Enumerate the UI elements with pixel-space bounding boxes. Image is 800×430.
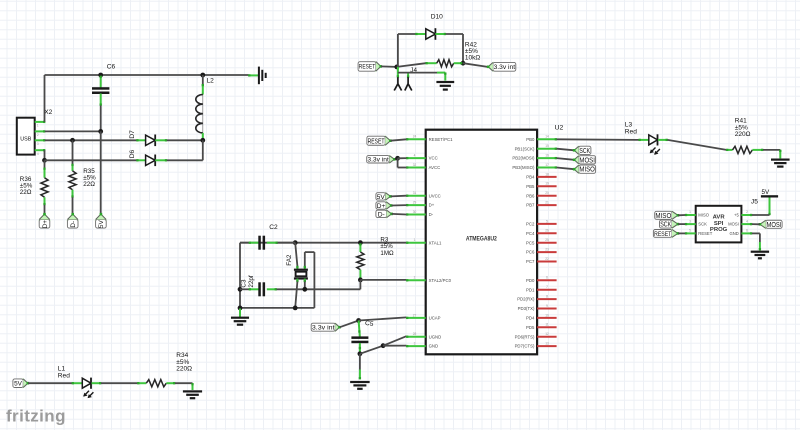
ground GND6 (J5) — [751, 251, 769, 260]
svg-text:GND: GND — [429, 344, 439, 349]
svg-text:2: 2 — [414, 276, 416, 280]
svg-text:7: 7 — [546, 285, 548, 289]
svg-text:19: 19 — [545, 182, 549, 186]
wire LED L3 to R41 — [668, 140, 727, 150]
net tag MOSI (IC) — [573, 155, 596, 165]
wire MISO tag to J5 — [678, 214, 685, 216]
svg-text:Red: Red — [625, 128, 637, 135]
label R36 — [20, 176, 33, 196]
svg-text:PROG: PROG — [710, 227, 728, 233]
LED L3 — [638, 134, 667, 155]
svg-text:5V: 5V — [761, 189, 770, 196]
svg-text:14: 14 — [545, 135, 549, 139]
svg-text:PB0: PB0 — [526, 137, 535, 142]
svg-text:C2: C2 — [269, 224, 278, 231]
svg-text:3: 3 — [689, 219, 691, 223]
svg-text:1: 1 — [37, 124, 39, 128]
svg-text:UCAP: UCAP — [429, 316, 441, 321]
wire XTAL2 net — [302, 280, 406, 292]
svg-text:4: 4 — [414, 154, 416, 158]
svg-text:PC5: PC5 — [526, 240, 535, 245]
net tag MISO (IC) — [573, 164, 596, 174]
svg-text:UGND: UGND — [429, 334, 442, 339]
capacitor C3 — [240, 282, 305, 296]
label R3 — [380, 237, 394, 257]
svg-text:fritzing: fritzing — [6, 407, 66, 426]
svg-text:SCK: SCK — [698, 222, 707, 227]
wire 5V net down — [100, 131, 102, 213]
svg-text:5: 5 — [546, 219, 548, 223]
IC U2 right pins (unconnected red) — [515, 172, 557, 348]
wire PB3 to MISO tag — [557, 168, 575, 170]
svg-text:L2: L2 — [207, 77, 215, 84]
svg-text:26: 26 — [545, 229, 549, 233]
label R34 — [176, 352, 192, 372]
svg-text:RESET: RESET — [698, 231, 712, 236]
capacitor C6 — [92, 76, 109, 106]
label C6 — [107, 64, 116, 71]
svg-text:31: 31 — [413, 191, 417, 195]
label R42 — [465, 41, 480, 61]
wire X2 pin1 up — [44, 75, 46, 122]
svg-text:U2: U2 — [555, 125, 564, 132]
label L1 Red — [58, 366, 70, 380]
svg-text:2: 2 — [37, 133, 39, 137]
net tag D- (IC) — [376, 209, 393, 218]
svg-text:XTAL1: XTAL1 — [429, 240, 442, 245]
net tag MISO (J5) — [655, 210, 679, 220]
svg-text:C6: C6 — [107, 64, 116, 71]
net tag 3.3v int (UCAP) — [311, 322, 341, 332]
svg-text:RESET: RESET — [359, 64, 375, 71]
svg-text:D7: D7 — [129, 130, 136, 139]
crystal FA2 — [294, 243, 308, 308]
svg-text:PB6: PB6 — [526, 193, 535, 198]
wire crystal loop — [305, 252, 315, 308]
svg-text:PD2(RX): PD2(RX) — [517, 297, 535, 302]
svg-text:MOSI: MOSI — [767, 222, 782, 229]
svg-text:3: 3 — [414, 342, 416, 346]
svg-text:5V: 5V — [377, 194, 386, 201]
net tag D+ (IC) — [376, 201, 393, 210]
connector J5 AVR SPI PROG body — [696, 206, 742, 243]
svg-text:11: 11 — [545, 323, 549, 327]
wire 3.3vint to VCC/AVCC — [395, 156, 407, 168]
wire D- tag to pin — [392, 213, 407, 216]
svg-text:SPI: SPI — [714, 221, 724, 227]
svg-text:3.3v int: 3.3v int — [494, 64, 516, 71]
wire C5 node to UCAP — [359, 317, 407, 320]
svg-text:PB5: PB5 — [526, 184, 535, 189]
wire J5 GND to ground — [752, 233, 761, 250]
svg-text:MOSI: MOSI — [728, 222, 739, 227]
label R35 — [83, 168, 96, 188]
svg-text:MISO: MISO — [698, 213, 709, 218]
diode D6 — [136, 155, 167, 167]
svg-text:5V: 5V — [14, 381, 23, 388]
svg-text:SCK: SCK — [660, 222, 671, 229]
net tag RESET (J5) — [653, 229, 679, 239]
svg-text:22Ω: 22Ω — [83, 181, 95, 188]
wire LED L1 to R34 — [101, 382, 138, 384]
svg-text:USB: USB — [20, 136, 31, 142]
svg-text:23: 23 — [545, 248, 549, 252]
IC U2 right pins (connected) — [512, 135, 557, 170]
resistor R36 — [41, 160, 48, 213]
svg-text:13: 13 — [545, 342, 549, 346]
wire pin4 to D6 — [45, 159, 137, 161]
label D7 — [129, 130, 136, 139]
svg-text:10kΩ: 10kΩ — [465, 55, 480, 62]
wire R42 to 3.3v int tag — [463, 63, 489, 67]
svg-text:22Ω: 22Ω — [20, 189, 32, 196]
svg-text:10: 10 — [545, 313, 549, 317]
wire R41 to ground — [763, 150, 781, 159]
svg-text:D+: D+ — [429, 203, 435, 208]
label FA2 — [286, 254, 293, 266]
wire RESET tag to J5 — [678, 232, 685, 234]
svg-text:15: 15 — [545, 144, 549, 148]
svg-text:6: 6 — [546, 276, 548, 280]
svg-text:8: 8 — [546, 295, 548, 299]
svg-text:D10: D10 — [431, 14, 443, 21]
label C5 — [364, 320, 374, 328]
wire left vertical (C2/C3/gnd) — [238, 243, 243, 308]
svg-text:MISO: MISO — [579, 167, 595, 174]
ground GND4 (under C5) — [350, 381, 370, 390]
ground GND5 (R41) — [771, 159, 790, 168]
svg-text:PB4: PB4 — [526, 175, 535, 180]
svg-text:PC7: PC7 — [526, 259, 535, 264]
net tag SCK (J5) — [660, 219, 680, 229]
svg-text:UVCC: UVCC — [429, 193, 441, 198]
net tag 3.3v int (VCC) — [367, 155, 396, 164]
net tag 5V (L1) — [13, 378, 29, 389]
svg-text:D+: D+ — [42, 220, 49, 229]
svg-text:MISO: MISO — [655, 213, 671, 220]
svg-text:1: 1 — [689, 210, 691, 214]
svg-text:GND: GND — [729, 231, 738, 236]
label J4 — [410, 67, 417, 74]
svg-text:PD7(CTS): PD7(CTS) — [515, 344, 535, 349]
svg-text:220Ω: 220Ω — [176, 365, 192, 372]
wire tag to C5 node — [340, 318, 361, 327]
svg-text:PD1: PD1 — [526, 287, 535, 292]
LED L1 — [72, 378, 102, 399]
svg-text:MOSI: MOSI — [579, 157, 595, 164]
svg-text:SCK: SCK — [579, 148, 590, 155]
svg-text:L1: L1 — [58, 366, 66, 373]
wire D6 up to L2 node — [167, 140, 203, 160]
net tag MOSI (J5 right) — [759, 219, 783, 229]
svg-text:28: 28 — [413, 332, 417, 336]
label X2 — [44, 109, 52, 116]
resistor R42 — [425, 60, 462, 67]
J5 right pins — [728, 210, 752, 236]
svg-text:1: 1 — [414, 238, 416, 242]
svg-text:C3: C3 — [241, 279, 248, 288]
wire C5 to ground — [359, 354, 361, 380]
resistor R34 — [137, 380, 175, 387]
wire XTAL1 net — [240, 240, 406, 245]
svg-text:21: 21 — [545, 201, 549, 205]
fritzing watermark — [6, 407, 66, 426]
svg-text:PB7: PB7 — [526, 203, 535, 208]
label D10 — [431, 14, 443, 21]
label C2 — [269, 224, 278, 231]
wire J4 to ground — [398, 72, 447, 80]
svg-text:X2: X2 — [44, 109, 52, 116]
svg-text:27: 27 — [413, 313, 417, 317]
svg-text:D6: D6 — [129, 150, 136, 159]
wire PB0 to LED L3 — [557, 138, 639, 141]
X2 pin stubs — [35, 121, 46, 152]
diode D7 — [136, 135, 167, 147]
resistor R3 — [357, 243, 364, 282]
svg-text:RESET: RESET — [654, 231, 671, 238]
svg-text:L3: L3 — [625, 121, 633, 128]
net tag RESET (IC) — [367, 135, 392, 146]
diode D10 — [415, 28, 446, 40]
wire RESET to node — [381, 65, 399, 70]
label C3 22pf — [241, 275, 255, 288]
wire node to R42 left — [397, 63, 426, 67]
wire RESET tag to pin — [391, 139, 407, 140]
svg-text:18: 18 — [545, 172, 549, 176]
svg-text:PB1(SCK): PB1(SCK) — [515, 146, 535, 151]
svg-text:22pf: 22pf — [248, 275, 255, 288]
wire D+ tag to pin — [391, 204, 406, 206]
svg-text:PD6(RTS): PD6(RTS) — [515, 334, 535, 339]
connector J4 pin1 — [394, 67, 401, 91]
ground GND3 (crystal) — [231, 309, 249, 326]
J5 title text — [710, 214, 728, 233]
svg-text:AVCC: AVCC — [429, 165, 441, 170]
capacitor C5 — [351, 321, 368, 357]
wire X2 pin4 corner — [42, 150, 47, 163]
svg-text:AVR: AVR — [713, 214, 726, 220]
svg-text:3: 3 — [37, 142, 39, 146]
label D6 — [129, 150, 136, 159]
label U2 — [555, 125, 564, 132]
svg-text:RESET/PC1: RESET/PC1 — [429, 137, 453, 142]
svg-text:12: 12 — [545, 332, 549, 336]
wire ground bus (crystal) — [238, 306, 315, 311]
wire +5 to 5V symbol — [752, 214, 770, 216]
net tag SCK (IC) — [573, 145, 591, 155]
svg-text:D+: D+ — [377, 203, 386, 210]
wire D7 to L2 node — [167, 138, 205, 143]
svg-text:PD5: PD5 — [526, 325, 535, 330]
svg-text:24: 24 — [413, 135, 417, 139]
svg-text:9: 9 — [546, 304, 548, 308]
net tag RESET (top) — [358, 61, 382, 73]
wire top bus — [45, 73, 249, 78]
net tag 5V (UVCC) — [376, 192, 392, 201]
svg-text:22: 22 — [545, 257, 549, 261]
svg-text:4: 4 — [37, 152, 39, 156]
svg-text:PD0: PD0 — [526, 278, 535, 283]
resistor R41 — [726, 146, 763, 153]
label R41 — [735, 118, 751, 138]
wire node up to D10 — [398, 34, 416, 67]
svg-text:Red: Red — [58, 373, 70, 380]
IC U2 body — [426, 130, 537, 355]
svg-text:25: 25 — [545, 238, 549, 242]
connector J4 pin2 — [405, 73, 412, 91]
wire X2 pin2 to C6 node — [45, 106, 103, 134]
IC name ATMEGA8U2 — [466, 235, 497, 242]
svg-text:1MΩ: 1MΩ — [380, 250, 394, 257]
svg-text:5V: 5V — [98, 220, 105, 229]
net tag D- (bottom) — [66, 213, 79, 228]
capacitor C2 — [240, 236, 295, 250]
ground GND2 (under J4) — [436, 81, 454, 91]
svg-text:FA2: FA2 — [286, 254, 293, 266]
svg-text:PB2(MOSI): PB2(MOSI) — [512, 156, 535, 161]
resistor R35 — [69, 140, 76, 213]
wire SCK tag to J5 — [678, 223, 685, 225]
svg-text:ATMEGA8U2: ATMEGA8U2 — [466, 235, 497, 242]
net tag 5V (bottom of USB) — [95, 213, 108, 228]
svg-text:3.3v int: 3.3v int — [312, 325, 335, 332]
inductor L2 — [196, 75, 204, 141]
X2 pin numbers — [37, 124, 39, 156]
svg-text:6: 6 — [746, 229, 748, 233]
wire R34 to ground — [175, 383, 194, 390]
svg-text:16: 16 — [545, 154, 549, 158]
label J5 — [751, 199, 758, 206]
connector X2 USB — [17, 118, 35, 155]
svg-text:D-: D- — [378, 211, 385, 218]
svg-text:RESET: RESET — [368, 136, 385, 145]
svg-text:PD4: PD4 — [526, 316, 535, 321]
svg-text:220Ω: 220Ω — [735, 131, 751, 138]
net tag D+ (bottom) — [38, 213, 51, 229]
svg-text:PB3(MISO): PB3(MISO) — [512, 165, 535, 170]
svg-text:D-: D- — [429, 212, 434, 217]
svg-text:C5: C5 — [364, 320, 374, 328]
svg-text:PD3(TX): PD3(TX) — [518, 306, 535, 311]
label L2 — [207, 77, 215, 84]
svg-text:D-: D- — [70, 221, 77, 228]
svg-text:32: 32 — [413, 163, 417, 167]
J5 left pins — [685, 210, 713, 236]
svg-text:J5: J5 — [751, 199, 758, 206]
svg-text:PC4: PC4 — [526, 231, 535, 236]
wire PB2 to MOSI tag — [557, 158, 575, 160]
svg-text:5: 5 — [689, 229, 691, 233]
svg-text:29: 29 — [413, 201, 417, 205]
power symbol 5V (J5) — [761, 189, 778, 215]
net tag 3.3v int (top) — [487, 61, 516, 72]
svg-text:VCC: VCC — [429, 156, 438, 161]
svg-text:4: 4 — [746, 219, 748, 223]
IC U2 left pins — [406, 135, 453, 349]
wire PB1 to SCK tag — [557, 149, 575, 151]
svg-text:3.3v int: 3.3v int — [367, 157, 389, 164]
wire D10 to R42 right node — [446, 34, 466, 66]
wire 5V tag to LED L1 — [28, 382, 72, 384]
label L3 Red — [625, 121, 637, 135]
wire X2 pin3 to D7 — [45, 138, 137, 143]
svg-text:PC6: PC6 — [526, 250, 535, 255]
ground GND1 (rotated, top right) — [248, 67, 267, 85]
wire 5V tag to UVCC — [391, 195, 407, 198]
svg-text:30: 30 — [413, 210, 417, 214]
svg-text:20: 20 — [545, 191, 549, 195]
svg-text:17: 17 — [545, 163, 549, 167]
svg-text:2: 2 — [746, 210, 748, 214]
svg-text:PC2: PC2 — [526, 222, 535, 227]
wire C5 to UGND/GND — [360, 336, 407, 354]
ground GND7 (R34) — [183, 390, 202, 399]
svg-text:+5: +5 — [734, 213, 739, 218]
wire J5 MOSI to tag — [752, 223, 760, 225]
svg-text:XTAL2/PC0: XTAL2/PC0 — [429, 278, 452, 283]
